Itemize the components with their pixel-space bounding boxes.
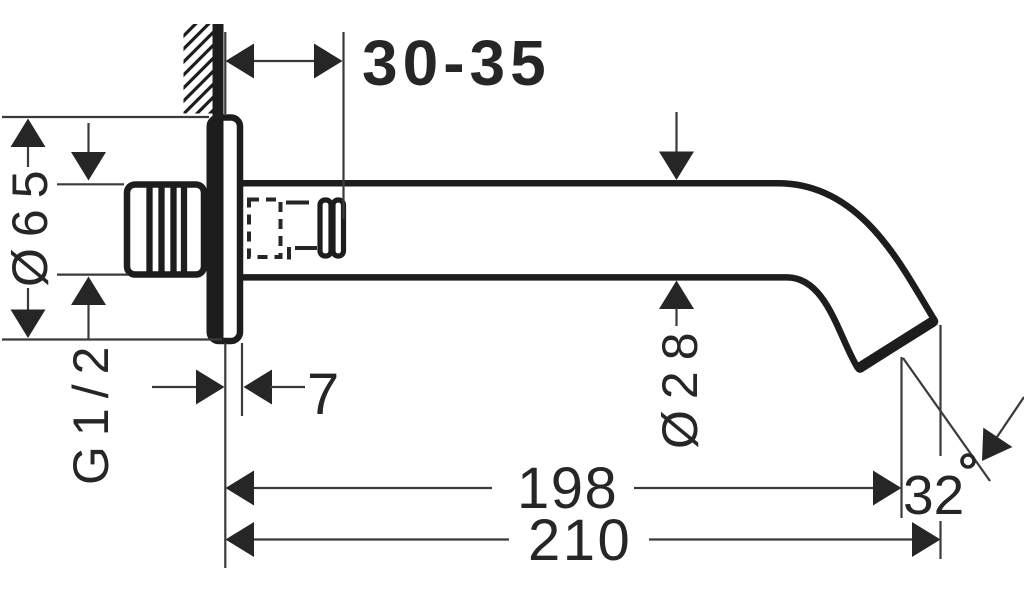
svg-text:Ø65: Ø65 bbox=[2, 159, 58, 287]
svg-text:7: 7 bbox=[307, 362, 339, 427]
svg-text:210: 210 bbox=[528, 508, 632, 573]
svg-text:30-35: 30-35 bbox=[362, 27, 551, 99]
svg-text:G1/2: G1/2 bbox=[63, 337, 119, 485]
svg-text:32: 32 bbox=[903, 464, 964, 526]
svg-text:Ø28: Ø28 bbox=[652, 321, 708, 449]
